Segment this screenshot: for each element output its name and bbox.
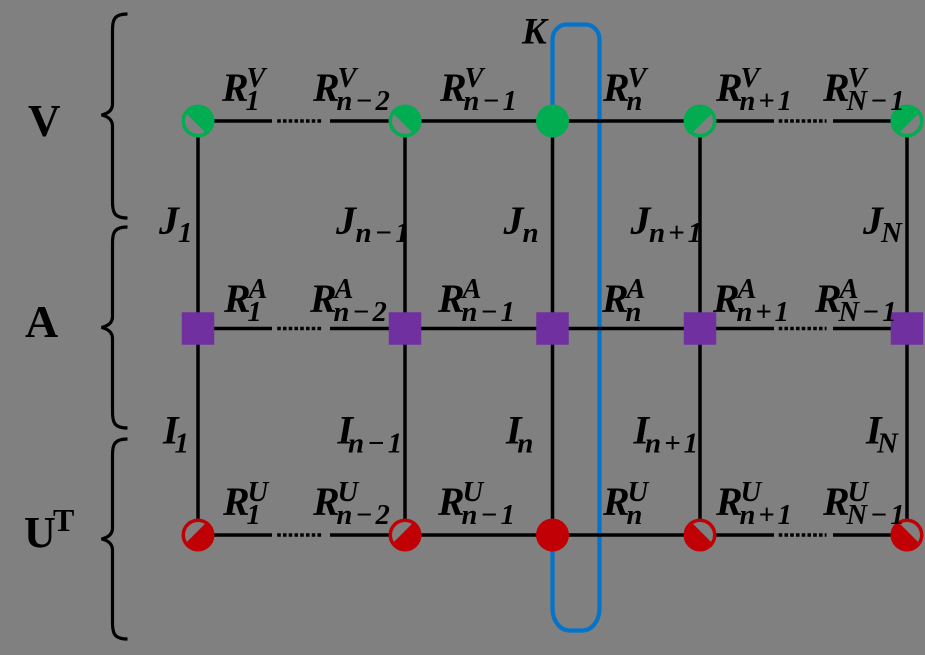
label R U 1	[222, 477, 270, 531]
svg-text:n−2: n−2	[337, 86, 393, 117]
wire row A: node An-1 through An to dotted gap right	[330, 327, 774, 331]
svg-text:1: 1	[248, 297, 262, 328]
label R U n-1	[437, 477, 518, 531]
svg-text:U: U	[24, 508, 56, 557]
node An+1 (purple square)	[684, 312, 717, 345]
svg-text:N−1: N−1	[846, 86, 908, 117]
wire row A: node A1 to dotted gap	[198, 327, 272, 331]
svg-text:N: N	[876, 428, 899, 460]
svg-text:n−1: n−1	[356, 217, 413, 249]
wire row U: node U1 to dotted gap	[198, 533, 272, 537]
node An (purple square)	[536, 312, 569, 345]
label J1	[158, 198, 193, 249]
node Un+1 (red isometry circle)	[684, 519, 717, 552]
node AN (purple square)	[891, 312, 924, 345]
brace for A row	[102, 227, 128, 428]
wire row U: node Un-1 through Un to dotted gap right	[330, 533, 774, 537]
svg-text:n: n	[627, 86, 643, 117]
svg-text:n−1: n−1	[464, 86, 520, 117]
label R U n-2	[312, 477, 393, 531]
wire row V dotted segment left	[277, 119, 322, 123]
label IN	[865, 408, 899, 460]
label R V n+1	[715, 63, 795, 117]
label Jn-1	[335, 198, 413, 249]
node V1 (green isometry circle)	[182, 105, 215, 138]
wire vertical column N (bond JN / IN)	[905, 121, 909, 535]
node VN (green isometry circle)	[891, 105, 924, 138]
wire row U dotted segment left	[277, 533, 322, 537]
label R U N-1	[822, 477, 908, 531]
svg-text:n: n	[627, 500, 643, 531]
label In+1	[633, 408, 702, 460]
node A1 (purple square)	[182, 312, 215, 345]
node Vn (green solid circle)	[536, 105, 569, 138]
label JN	[862, 198, 903, 249]
label R V N-1	[822, 63, 908, 117]
label I1	[162, 408, 189, 460]
label R V n-2	[312, 63, 393, 117]
label R A n-2	[309, 274, 390, 328]
wire row V: node Vn-1 through Vn to dotted gap right	[330, 119, 774, 123]
svg-text:n−1: n−1	[462, 297, 518, 328]
wire row A dotted segment left	[277, 327, 322, 331]
svg-text:N−1: N−1	[838, 297, 900, 328]
label R A n+1	[712, 274, 792, 328]
svg-text:K: K	[521, 12, 549, 53]
label Jn	[503, 198, 539, 249]
label R U n+1	[715, 477, 795, 531]
label R A n	[601, 274, 646, 328]
svg-text:n+1: n+1	[740, 86, 795, 117]
label R A 1	[223, 274, 268, 328]
svg-text:A: A	[25, 296, 58, 347]
svg-text:n+1: n+1	[649, 217, 705, 249]
svg-text:n−1: n−1	[462, 500, 518, 531]
label In-1	[337, 408, 406, 460]
label In	[505, 408, 533, 460]
label R A N-1	[814, 274, 900, 328]
brace for V row	[102, 14, 128, 218]
label Jn+1	[630, 198, 706, 249]
brace for U row	[102, 439, 128, 639]
svg-text:n+1: n+1	[645, 428, 701, 460]
svg-text:n−2: n−2	[334, 297, 390, 328]
node U1 (red isometry circle)	[182, 519, 215, 552]
node Un (red solid circle)	[536, 519, 569, 552]
wire vertical column 1 (bond J1 / I1)	[196, 121, 200, 535]
svg-text:n: n	[626, 297, 642, 328]
svg-text:n−1: n−1	[348, 428, 405, 460]
svg-text:1: 1	[175, 428, 190, 460]
wire row U: to node UN	[833, 533, 907, 537]
wire row V: to node VN	[833, 119, 907, 123]
wire K loop (blue contraction line)	[553, 25, 600, 631]
svg-text:n+1: n+1	[740, 500, 795, 531]
svg-text:N: N	[880, 217, 903, 249]
node Vn-1 (green isometry circle)	[389, 105, 422, 138]
svg-text:N−1: N−1	[846, 500, 908, 531]
wire row V dotted segment right	[779, 119, 827, 123]
label R V n-1	[439, 63, 520, 117]
wire row V: node V1 to dotted gap	[198, 119, 272, 123]
wire row U dotted segment right	[779, 533, 827, 537]
svg-text:n: n	[517, 428, 533, 460]
node An-1 (purple square)	[389, 312, 422, 345]
svg-text:1: 1	[246, 86, 260, 117]
node UN (red isometry circle)	[891, 519, 924, 552]
label R A n-1	[437, 274, 518, 328]
wire vertical column n-1 (bond Jn-1 / In-1)	[403, 121, 407, 535]
label R V 1	[221, 63, 268, 117]
svg-text:1: 1	[178, 217, 193, 249]
wire vertical column n (bond Jn / In)	[551, 121, 555, 535]
svg-text:V: V	[28, 96, 61, 146]
svg-text:n+1: n+1	[737, 297, 792, 328]
wire row A dotted segment right	[779, 327, 827, 331]
wire vertical column n+1 (bond Jn+1 / In+1)	[698, 121, 702, 535]
svg-text:T: T	[53, 502, 74, 538]
svg-text:n: n	[523, 217, 539, 249]
svg-text:1: 1	[247, 500, 261, 531]
label R U n	[602, 477, 650, 531]
label R V n	[602, 63, 649, 117]
node Vn+1 (green isometry circle)	[684, 105, 717, 138]
label U^T (left)	[24, 502, 74, 557]
wire row A: to node AN	[833, 327, 907, 331]
svg-text:n−2: n−2	[337, 500, 393, 531]
node Un-1 (red isometry circle)	[389, 519, 422, 552]
